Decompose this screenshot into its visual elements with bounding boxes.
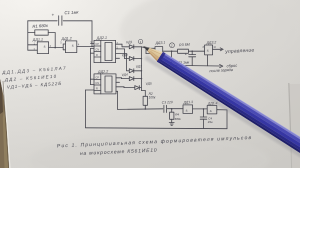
capacitor C3	[164, 105, 183, 112]
junction node	[171, 108, 173, 110]
svg-text:ДД1.3: ДД1.3	[182, 100, 193, 105]
graphite tip	[142, 44, 150, 51]
wire: DD1.4 output	[217, 109, 227, 111]
resistor R1	[28, 30, 55, 48]
wire: DD1.1 output to DD1.2	[49, 47, 64, 49]
wire: DD2.1 output 4 stub	[116, 57, 120, 59]
wire: DD2.2 output to pulse line	[116, 91, 118, 109]
wire: DD2.2 output to VD5	[116, 86, 135, 89]
table (wood) wedge bottom-left	[0, 79, 9, 168]
capacitor C4	[200, 109, 207, 129]
svg-text:R3 5М: R3 5М	[179, 43, 190, 48]
diode VD4	[129, 77, 141, 81]
svg-text:R: R	[96, 54, 98, 57]
gate DD1.2	[63, 41, 77, 53]
wire: node B drop	[171, 51, 173, 65]
chip cell letters	[95, 43, 99, 90]
paper background	[0, 0, 300, 168]
wire: feedback top rail to C1	[28, 20, 57, 22]
wire: diode common cathode bus	[140, 47, 142, 91]
diode VD5	[135, 86, 142, 90]
svg-text:+: +	[185, 52, 187, 56]
junction node B	[171, 50, 173, 52]
svg-text:ДД1.2: ДД1.2	[60, 36, 72, 41]
schematic text labels	[32, 10, 255, 125]
right paper edge shadow	[289, 84, 300, 168]
caption	[57, 135, 253, 157]
svg-text:CN: CN	[95, 82, 99, 85]
gate DD3.2	[205, 45, 213, 55]
wire: DD2.2 output stub	[116, 81, 120, 83]
svg-text:680к: 680к	[175, 117, 182, 121]
svg-text:VД4: VД4	[121, 73, 128, 77]
svg-text:VД2: VД2	[122, 53, 129, 57]
diode VD3	[129, 69, 141, 73]
svg-text:C1 1мк: C1 1мк	[64, 10, 79, 16]
svg-text:ДД3.1: ДД3.1	[154, 41, 165, 46]
wire: DD2.1 left pins	[91, 44, 95, 80]
counter DD2.1	[94, 40, 116, 62]
svg-text:ДД1.1: ДД1.1	[32, 37, 44, 42]
svg-text:ДД2.2: ДД2.2	[97, 70, 109, 75]
junction node	[91, 46, 93, 48]
gate DD1.3	[183, 105, 193, 114]
node label A	[138, 39, 142, 43]
svg-text:33н: 33н	[208, 120, 213, 124]
gate DD3.1	[155, 47, 163, 57]
junction node	[203, 108, 205, 110]
svg-text:R: R	[96, 88, 98, 91]
svg-text:CP: CP	[95, 43, 99, 46]
capacitor C1	[59, 16, 62, 26]
diode VD1	[129, 45, 141, 49]
wire: DD3.2 output arrow	[213, 48, 224, 51]
wire: clock drop vertical	[91, 21, 93, 47]
gate symbols &	[44, 43, 212, 113]
svg-text:&: &	[210, 109, 212, 113]
svg-text:ДД2.1: ДД2.1	[96, 36, 108, 41]
pencil	[137, 40, 320, 167]
wire: DD3.1 output to R3	[163, 50, 178, 52]
resistor R2	[141, 91, 147, 110]
resistor R3	[178, 49, 205, 53]
svg-text:VД5: VД5	[145, 81, 152, 85]
wire: C1 to clock vertical	[63, 20, 92, 22]
svg-text:ДД3.2: ДД3.2	[205, 40, 216, 45]
diode VD2	[129, 57, 141, 61]
node label circle	[170, 43, 175, 48]
wire: DD2.1 output 3 to VD3	[116, 54, 130, 71]
svg-text:C3 220: C3 220	[162, 100, 173, 105]
counter DD2.2	[94, 74, 116, 94]
gate DD1.1	[28, 42, 49, 54]
paint collar	[157, 52, 166, 63]
wood cone	[145, 45, 164, 63]
wire: oscillator input left vertical	[27, 21, 29, 50]
junction node	[191, 50, 193, 52]
svg-text:100к: 100к	[149, 96, 156, 100]
junction node	[54, 47, 56, 49]
pin numbers	[34, 42, 217, 51]
svg-text:2: 2	[170, 43, 173, 47]
wire: DD2.1 output 1 to VD1	[116, 44, 130, 47]
wire: DD2.1 output 2 to VD2	[116, 49, 130, 59]
junction node	[141, 58, 143, 60]
svg-text:&: &	[207, 49, 209, 53]
wire: DD2.2 output to VD4	[116, 77, 129, 80]
gate DD1.4	[207, 106, 217, 114]
svg-text:&: &	[72, 43, 74, 47]
wire: diode bus to DD3.1 inputs	[141, 47, 155, 54]
resistor R4	[170, 109, 174, 123]
wire: DD1.3 output	[193, 108, 208, 110]
svg-text:VД3: VД3	[136, 64, 143, 68]
wire: DD2.2 left pins	[91, 79, 95, 84]
wire: DD1.2 output to DD2.1	[77, 45, 94, 47]
blue body facets	[162, 51, 320, 155]
wire: DD2.2 reset to common L rail	[86, 90, 228, 129]
junction node	[145, 108, 147, 110]
pencil shadow	[144, 55, 316, 165]
svg-text:&: &	[44, 44, 46, 48]
svg-text:VД1: VД1	[126, 40, 133, 44]
reference text block left	[1, 66, 67, 90]
svg-text:CN: CN	[95, 49, 99, 52]
wire: reset rail with arrow	[172, 55, 223, 68]
capacitor C2	[189, 51, 196, 65]
wire: pulse line to C3	[118, 108, 163, 111]
ground	[169, 123, 174, 126]
svg-text:CP: CP	[95, 77, 99, 80]
svg-text:+: +	[52, 13, 55, 18]
svg-text:&: &	[186, 108, 188, 112]
